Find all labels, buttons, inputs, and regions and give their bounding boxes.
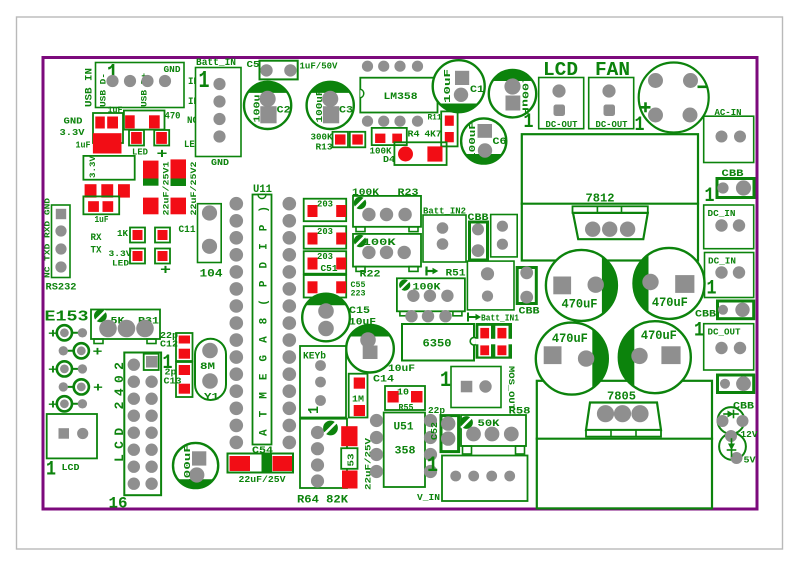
connector (mid) — [491, 215, 518, 257]
svg-text:C14: C14 — [373, 374, 394, 386]
pad red — [352, 134, 363, 144]
U11 pin (right) — [283, 402, 297, 416]
LCD2402 pin — [145, 461, 157, 473]
resistor R13 — [333, 132, 349, 148]
pad — [683, 73, 698, 88]
LM358 pin — [394, 116, 405, 127]
U11 pin (right) — [283, 231, 297, 245]
pad — [578, 350, 594, 366]
pad — [77, 428, 88, 439]
LCD2402 pin — [128, 461, 140, 473]
svg-text:1: 1 — [46, 459, 56, 482]
capacitor 470uF B (top right) — [634, 248, 705, 319]
svg-text:1: 1 — [306, 406, 323, 414]
svg-text:22uF/25V1: 22uF/25V1 — [164, 161, 172, 215]
pad square — [260, 106, 276, 123]
LCD2402 pin — [128, 427, 140, 439]
svg-text:10: 10 — [397, 388, 409, 398]
7805 pin — [631, 405, 648, 422]
pad — [481, 267, 494, 280]
pad — [202, 239, 217, 254]
pad red — [156, 132, 167, 144]
pad — [731, 452, 743, 464]
svg-text:TX: TX — [91, 246, 102, 257]
LED pad bracket — [129, 130, 144, 146]
svg-text:1: 1 — [440, 368, 451, 393]
via — [439, 310, 451, 322]
U51 pin — [424, 465, 437, 478]
pad — [407, 290, 419, 302]
svg-text:+: + — [93, 380, 103, 395]
svg-text:GND: GND — [164, 64, 181, 75]
pad square — [661, 346, 680, 364]
U11 pin (right) — [283, 384, 297, 398]
U11 pin (left) — [230, 282, 244, 296]
pad — [504, 471, 515, 482]
screw R22 — [354, 235, 366, 247]
LED 12V — [718, 407, 745, 434]
pad square — [59, 428, 70, 439]
USB pad 1 — [106, 75, 118, 87]
pad red — [179, 336, 190, 344]
svg-text:C1: C1 — [470, 84, 484, 96]
pad square — [553, 277, 571, 295]
svg-text:358: 358 — [395, 446, 416, 458]
pad — [118, 320, 136, 338]
board outline (purple) — [43, 58, 757, 510]
pin1 arrow (Batt_IN2) — [427, 270, 435, 272]
U11 pin (left) — [230, 299, 244, 313]
svg-text:DC_IN: DC_IN — [708, 208, 736, 219]
capacitor 1uF bracket — [83, 196, 119, 214]
pad red — [179, 349, 190, 359]
pad — [733, 266, 745, 278]
svg-text:4K7: 4K7 — [425, 129, 442, 140]
via — [405, 310, 417, 322]
pad square — [323, 106, 339, 123]
U11 pin (left) — [230, 333, 244, 347]
resistor R4 — [372, 128, 407, 145]
capacitor C14 — [346, 325, 394, 373]
pad red — [308, 258, 318, 270]
pad — [720, 379, 730, 389]
pad red — [445, 116, 454, 126]
U51 pin — [370, 414, 383, 427]
U51 pin — [424, 431, 437, 444]
svg-text:1: 1 — [163, 352, 173, 375]
Batt_IN pad 4 — [213, 130, 225, 142]
pad square — [675, 275, 694, 293]
pad — [441, 416, 455, 430]
LED pad row — [63, 386, 81, 388]
resistor network box — [304, 251, 347, 274]
pad — [362, 246, 375, 259]
LED 5V — [719, 433, 746, 460]
pad — [715, 266, 727, 278]
U11 pin (right) — [283, 419, 297, 433]
capacitor 470uF C (bottom left) — [536, 323, 608, 395]
capacitor 22uF/25V2 — [171, 159, 187, 178]
pad square — [56, 209, 66, 219]
LCD2402 pin — [145, 478, 157, 490]
LM358 pin — [394, 61, 405, 72]
svg-text:E153: E153 — [45, 309, 89, 326]
svg-text:R11: R11 — [428, 113, 442, 123]
pad — [497, 221, 508, 232]
svg-text:C5: C5 — [247, 59, 260, 70]
pad — [260, 64, 272, 76]
U11 pin (right) — [283, 299, 297, 313]
LCD2402 pin — [145, 393, 157, 405]
pad — [552, 84, 565, 97]
LCD2402 pin — [145, 427, 157, 439]
resistor network box — [304, 226, 347, 249]
LCD2402 pin — [128, 393, 140, 405]
LED pad row — [64, 403, 82, 405]
svg-text:Batt_IN1: Batt_IN1 — [481, 313, 519, 324]
pad — [202, 205, 217, 220]
resistor network box — [304, 199, 347, 222]
svg-text:+: + — [160, 263, 171, 279]
LCD2402 pin — [128, 359, 140, 371]
svg-text:+: + — [48, 362, 58, 377]
U11 pin (left) — [230, 436, 244, 450]
pad red — [179, 365, 190, 375]
svg-text:100uF: 100uF — [315, 90, 325, 123]
capacitor 53 (SMD elco) — [341, 426, 357, 446]
svg-text:CBB: CBB — [519, 306, 541, 318]
pad red — [95, 117, 105, 129]
LM358 pin — [412, 116, 423, 127]
pad — [715, 219, 727, 231]
pad — [718, 305, 728, 315]
svg-text:Y1: Y1 — [204, 392, 219, 404]
svg-text:C15: C15 — [349, 305, 370, 317]
pad — [362, 208, 375, 221]
pad square — [506, 96, 521, 111]
LED bracket2 — [155, 249, 170, 264]
svg-text:MOS_OUT: MOS_OUT — [506, 366, 516, 410]
pad red — [480, 328, 489, 339]
svg-text:DC_OUT: DC_OUT — [708, 328, 742, 338]
svg-text:DC_IN: DC_IN — [708, 256, 736, 267]
regulator 7812 module — [522, 134, 698, 260]
svg-text:100uF: 100uF — [182, 444, 193, 487]
pad red — [480, 345, 489, 355]
pad — [520, 266, 533, 279]
svg-text:RS232: RS232 — [46, 283, 77, 294]
pad — [520, 291, 533, 304]
connector V_IN — [442, 456, 528, 502]
svg-text:R22: R22 — [360, 269, 381, 281]
pad — [485, 427, 500, 442]
pad — [504, 427, 519, 442]
pad red — [336, 233, 346, 245]
pad red — [133, 251, 143, 261]
capacitor C3 — [307, 82, 354, 129]
pad — [479, 380, 491, 392]
U51 pin — [370, 431, 383, 444]
pad red — [179, 384, 190, 394]
resistor 10 R55 — [385, 386, 425, 410]
U11 pin (left) — [230, 384, 244, 398]
minus mark — [698, 86, 707, 89]
svg-text:16: 16 — [109, 495, 128, 513]
svg-text:53: 53 — [347, 454, 357, 467]
U51 pin — [370, 448, 383, 461]
pad — [318, 303, 334, 319]
7812 pin — [620, 222, 635, 237]
svg-text:LCD: LCD — [62, 462, 80, 473]
U11 pin (left) — [230, 316, 244, 330]
capacitor C1 — [433, 60, 485, 112]
capacitor C15 — [302, 294, 350, 342]
svg-text:8M: 8M — [200, 361, 215, 373]
screw R51 — [399, 280, 410, 291]
pad — [482, 291, 493, 302]
connector USB (USB IN) — [96, 63, 185, 108]
LCD2402 pin — [128, 410, 140, 422]
IC U51 — [384, 413, 425, 488]
svg-text:7812: 7812 — [586, 192, 615, 206]
tantalum cap body (red) — [93, 133, 122, 153]
USB pad 3 — [141, 75, 153, 87]
7805 pin — [614, 405, 631, 422]
svg-text:6350: 6350 — [423, 339, 452, 351]
svg-text:470uF: 470uF — [641, 329, 677, 343]
capacitor C13 — [176, 362, 193, 397]
capacitor CBB (bottom right) — [718, 375, 754, 393]
LM358 pin — [362, 61, 373, 72]
pad — [315, 395, 326, 406]
screw R23 — [354, 197, 366, 209]
pad — [311, 474, 324, 487]
U11 pin (right) — [283, 436, 297, 450]
pad — [631, 348, 647, 364]
pad — [380, 246, 393, 259]
pad — [737, 415, 749, 427]
7812 pin — [585, 222, 600, 237]
pad — [311, 426, 324, 439]
pad red — [388, 391, 399, 403]
relay box — [467, 261, 514, 310]
pad red — [497, 345, 506, 355]
pad — [202, 373, 218, 389]
pad red — [445, 132, 454, 142]
svg-text:RX: RX — [91, 233, 102, 244]
Batt_IN pad 3 — [213, 113, 225, 125]
svg-text:1: 1 — [524, 111, 534, 134]
U11 pin (left) — [230, 402, 244, 416]
LED pad row — [64, 368, 82, 370]
7805 pin — [597, 405, 614, 422]
pad — [318, 321, 334, 337]
7812 body trapezoid — [573, 213, 648, 239]
LM358 pin — [412, 61, 423, 72]
svg-text:1: 1 — [427, 453, 438, 478]
pad square — [455, 71, 469, 85]
LCD2402 pin — [128, 376, 140, 388]
pad — [99, 320, 117, 338]
resistor 1M — [349, 374, 368, 418]
U51 pin — [424, 448, 437, 461]
pad — [398, 246, 411, 259]
pin1 box — [144, 354, 159, 370]
pad square — [554, 105, 566, 117]
pad — [602, 84, 615, 97]
pad — [716, 131, 728, 143]
svg-text:1uF/50V: 1uF/50V — [300, 61, 338, 72]
pad red — [336, 281, 346, 293]
LED bracket — [130, 249, 145, 264]
pad — [441, 431, 455, 445]
U11 pin (right) — [283, 333, 297, 347]
svg-text:203: 203 — [317, 200, 333, 210]
pad square — [604, 105, 616, 117]
U11 pin (right) — [283, 282, 297, 296]
svg-text:C2: C2 — [277, 105, 291, 117]
U11 pin (right) — [283, 197, 297, 211]
connector LCD — [47, 414, 97, 458]
svg-text:100uF: 100uF — [468, 122, 478, 160]
USB pad 2 — [124, 75, 136, 87]
7812 pin — [602, 222, 617, 237]
LED pad row — [63, 350, 81, 352]
pad red — [308, 233, 318, 245]
bridge rectifier — [639, 63, 709, 133]
U11 pin (left) — [230, 197, 244, 211]
pad — [437, 238, 449, 250]
U11 pin (right) — [283, 214, 297, 228]
pad — [642, 274, 658, 290]
pad — [472, 223, 484, 235]
pad red — [131, 132, 142, 144]
pad red — [85, 184, 97, 197]
svg-text:22uF/25V: 22uF/25V — [364, 437, 374, 490]
U51 pin — [370, 465, 383, 478]
pad red — [354, 378, 365, 389]
pad square — [478, 124, 493, 138]
pad red — [308, 281, 318, 293]
screw — [323, 421, 338, 436]
capacitor 470uF D (bottom right) — [619, 321, 691, 393]
pad square — [192, 451, 206, 465]
pad — [472, 244, 485, 257]
pad — [497, 239, 508, 250]
svg-text:3.3V: 3.3V — [88, 155, 98, 178]
svg-text:C51: C51 — [321, 264, 339, 274]
LED pad bracket — [154, 130, 169, 146]
screw 5K — [94, 310, 107, 323]
pad — [441, 290, 453, 302]
pad — [55, 225, 66, 236]
pad red — [336, 205, 346, 217]
svg-text:203: 203 — [317, 227, 333, 237]
capacitor 100uF (top) — [489, 70, 536, 117]
U11 pin (left) — [230, 214, 244, 228]
pad — [725, 430, 737, 442]
resistor 1K bracket — [130, 228, 145, 243]
pad — [454, 88, 468, 102]
LM358 pin — [362, 116, 373, 127]
trimmer R22 body — [353, 234, 421, 267]
pad — [736, 376, 751, 391]
pad — [315, 360, 326, 371]
pad red — [336, 258, 346, 270]
regulator 3.3V — [83, 156, 134, 180]
pad red — [133, 230, 143, 240]
pad red — [335, 134, 346, 144]
svg-text:R55: R55 — [399, 403, 414, 413]
svg-text:+: + — [93, 344, 103, 359]
Batt_IN pad 1 — [213, 78, 225, 90]
pad — [478, 143, 492, 157]
transistor block (2x2 pads) — [476, 323, 512, 359]
svg-text:1: 1 — [199, 68, 210, 95]
connector DC_IN 1 — [704, 205, 754, 249]
pad red — [88, 201, 99, 212]
svg-text:10uF: 10uF — [442, 69, 453, 103]
pad — [733, 219, 745, 231]
pad red — [103, 201, 114, 212]
svg-text:300K: 300K — [311, 133, 334, 143]
U11 pin (left) — [230, 265, 244, 279]
resistor network box — [304, 275, 347, 298]
capacitor C2 — [244, 82, 291, 129]
pad — [55, 261, 66, 272]
pad — [734, 342, 746, 354]
pad — [398, 208, 411, 221]
U11 pin (right) — [283, 350, 297, 364]
capacitor C (bracket) — [93, 113, 123, 143]
svg-text:R64 82K: R64 82K — [297, 495, 348, 507]
pad — [437, 222, 449, 234]
svg-text:U51: U51 — [394, 422, 414, 434]
pad — [717, 182, 728, 193]
svg-text:GND: GND — [211, 157, 229, 168]
capacitor C6 — [461, 118, 506, 163]
U11 pin (right) — [283, 265, 297, 279]
pad — [588, 277, 604, 293]
pad red — [125, 115, 135, 128]
pad — [189, 467, 204, 482]
LM358 pin — [378, 116, 389, 127]
U11 pin (left) — [230, 367, 244, 381]
connector R64 — [300, 419, 347, 488]
pad — [284, 64, 296, 76]
pad red — [375, 134, 385, 143]
capacitor 470uF A (top left) — [546, 250, 617, 321]
U11 pin (left) — [230, 248, 244, 262]
pad red — [392, 134, 402, 143]
Batt_IN pad 2 — [213, 95, 225, 107]
pad red — [158, 230, 168, 240]
pad — [734, 131, 746, 143]
pad — [322, 91, 338, 107]
pad red — [107, 117, 118, 129]
connector DC-OUT (FAN) — [589, 78, 634, 129]
trimmer 5K body — [91, 310, 160, 340]
connector DC_IN 2 — [705, 253, 754, 298]
pad — [360, 332, 376, 348]
USB pad 4 — [159, 75, 171, 87]
svg-text:+: + — [48, 326, 58, 341]
pad red — [149, 115, 160, 128]
IC 6350 — [402, 324, 474, 361]
crystal Y1 — [195, 339, 226, 400]
pad red — [118, 184, 130, 197]
pad red — [411, 391, 423, 403]
